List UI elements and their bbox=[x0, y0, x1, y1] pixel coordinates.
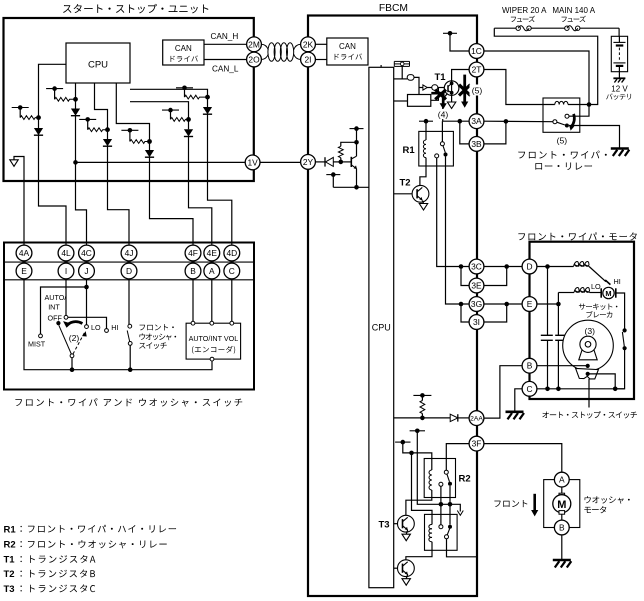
wire relay moving contact to ground bbox=[569, 126, 620, 149]
label front wiper low relay bbox=[518, 151, 606, 170]
resistor pull-up cell for 4E bbox=[162, 108, 191, 122]
relay coil (wiper low relay) bbox=[555, 101, 589, 104]
svg-text:B: B bbox=[559, 523, 565, 533]
label start-stop unit title bbox=[63, 4, 208, 14]
wire to gate2 bbox=[419, 87, 432, 89]
wire gate2 to T1 base bbox=[438, 87, 445, 89]
wire I column to AUTO/INT contact bbox=[65, 279, 67, 315]
wire R1 coil to T2 collector bbox=[420, 166, 426, 186]
wire R2 contacts down bbox=[441, 486, 450, 525]
wire follower stem to label bbox=[588, 379, 590, 408]
wire relay NO contact to junction bbox=[569, 105, 589, 117]
svg-text:(3): (3) bbox=[585, 326, 596, 336]
svg-text:C: C bbox=[229, 266, 235, 276]
power stub (2Y circuit) bbox=[350, 126, 364, 144]
ground (T1 emitter) bbox=[447, 95, 455, 108]
wire CPU pin3 down (4F line) bbox=[116, 83, 149, 142]
transistor T1 bbox=[444, 81, 459, 96]
power stub A (relay contact feed) bbox=[410, 429, 425, 434]
svg-text:2O: 2O bbox=[248, 55, 260, 65]
svg-text:1C: 1C bbox=[471, 46, 482, 56]
transistor T2 bbox=[394, 185, 429, 202]
svg-text:OFF: OFF bbox=[48, 313, 63, 322]
connector terminal I (switch) bbox=[58, 263, 74, 279]
svg-text:2AA: 2AA bbox=[470, 416, 483, 423]
label front washer switch bbox=[139, 324, 176, 349]
washer motor housing bbox=[544, 480, 580, 528]
label MIST bbox=[28, 339, 46, 348]
svg-text:AUTO/INT VOL: AUTO/INT VOL bbox=[189, 334, 239, 343]
connector terminal 2I bbox=[301, 52, 316, 67]
svg-text:B: B bbox=[527, 361, 533, 371]
label (2) bbox=[69, 333, 80, 343]
label LO bbox=[591, 282, 601, 291]
wire 3F to washer motor A bbox=[484, 444, 562, 473]
wire 4C line through 1V bus to connector bbox=[73, 116, 86, 246]
wire CPU right pin (4D line) bbox=[130, 89, 208, 97]
ground (wiper low relay) bbox=[611, 149, 630, 157]
circuit breaker (LO) bbox=[574, 288, 601, 293]
connector terminal 3A bbox=[469, 114, 484, 129]
wire coil supply to relay2 coil bbox=[412, 453, 433, 525]
svg-text:3I: 3I bbox=[473, 317, 480, 327]
wire CPU to 2AA diode bbox=[394, 417, 451, 419]
connector terminal 2Y bbox=[301, 155, 316, 170]
power stub (1C feed) bbox=[443, 31, 457, 36]
svg-text:D: D bbox=[126, 266, 132, 276]
label (5) relay bbox=[557, 135, 568, 145]
svg-text:A: A bbox=[559, 475, 565, 485]
capacitor 2 bbox=[555, 335, 567, 340]
label T1 bbox=[435, 72, 447, 83]
diode on 4E line bbox=[184, 119, 193, 136]
connector terminal B (switch) bbox=[185, 263, 201, 279]
svg-text:R2: R2 bbox=[459, 474, 471, 485]
wire stub B to R2 coil bbox=[403, 442, 432, 470]
power stub B (relay coil feed) bbox=[395, 440, 410, 445]
label front wiper motor bbox=[518, 232, 636, 240]
wire R2 coil to T3 collector bbox=[406, 498, 432, 516]
washer motor M bbox=[553, 487, 571, 520]
connector terminal 2AA bbox=[469, 411, 484, 426]
CAN driver IC (FBCM) bbox=[327, 38, 368, 65]
label (5) bbox=[470, 85, 485, 96]
svg-text:(5): (5) bbox=[557, 135, 568, 145]
wire park switch to C line bbox=[615, 348, 624, 389]
wire B to cam contact bbox=[537, 364, 590, 368]
relay R1 box bbox=[419, 131, 454, 166]
wire 1C to relay junction bbox=[484, 51, 591, 107]
power stub (2AA pull-up) bbox=[413, 393, 431, 400]
wire 1V to 2Y bbox=[260, 161, 301, 163]
transistor T3 bbox=[394, 515, 415, 532]
svg-text:4D: 4D bbox=[226, 248, 237, 258]
svg-text:CPU: CPU bbox=[372, 323, 391, 333]
capacitor 2 line bbox=[557, 304, 559, 389]
arrow to washer signal bbox=[457, 504, 463, 515]
wire 4J line to connector bbox=[108, 147, 130, 246]
wire 2T to relay coil bbox=[484, 70, 555, 105]
connector terminal D (switch) bbox=[121, 263, 137, 279]
resonator (CPU clock) bbox=[394, 61, 409, 66]
wire 3G to E bbox=[484, 302, 522, 307]
svg-text:T1: T1 bbox=[4, 555, 16, 566]
contact MIST bbox=[39, 334, 43, 338]
svg-text:4C: 4C bbox=[81, 248, 92, 258]
wire resonator to buffer input bbox=[401, 66, 403, 79]
wire CPU pin to driver block bbox=[394, 100, 408, 102]
connector terminal C (motor) bbox=[522, 381, 537, 396]
svg-text:T2: T2 bbox=[400, 178, 411, 189]
wire 4E line to connector bbox=[189, 137, 212, 246]
svg-text:B: B bbox=[190, 266, 196, 276]
wire M to auto-stop contact bbox=[616, 293, 625, 330]
svg-text:2T: 2T bbox=[472, 65, 482, 75]
svg-text:MIST: MIST bbox=[28, 339, 46, 348]
legend R2 bbox=[4, 540, 167, 551]
wire E to LO breaker bbox=[537, 293, 574, 307]
connector terminal B (washer) bbox=[554, 520, 569, 535]
svg-text:INT: INT bbox=[48, 303, 60, 312]
wire WIPER fuse output bbox=[494, 28, 597, 104]
ground (battery) bbox=[613, 78, 625, 82]
svg-text:4J: 4J bbox=[125, 248, 134, 258]
svg-text:4E: 4E bbox=[207, 248, 218, 258]
fuse MAIN 140A bbox=[565, 26, 580, 31]
transistor (2Y input, bare NPN) bbox=[341, 142, 359, 189]
relay R2 box bbox=[424, 459, 455, 498]
svg-text:4F: 4F bbox=[188, 248, 198, 258]
svg-text:T1: T1 bbox=[435, 72, 447, 83]
svg-text:3C: 3C bbox=[471, 262, 482, 272]
connector terminal 4L bbox=[58, 245, 74, 261]
CPU (FBCM, tall box) bbox=[369, 67, 394, 587]
wire AUTO-INT pad to HI pad bbox=[68, 317, 107, 328]
connector terminal C (switch) bbox=[224, 263, 240, 279]
label washer motor bbox=[584, 496, 629, 513]
connector terminal J (switch) bbox=[79, 263, 95, 279]
resistor pull-up cell for 4F bbox=[121, 128, 152, 144]
relay R1 contacts bbox=[435, 121, 448, 158]
label WIPER 20 A fuse bbox=[502, 6, 547, 22]
connector terminal E (motor) bbox=[522, 297, 537, 312]
wire CPU pin1 down (4C line) bbox=[75, 83, 77, 99]
resistor pull-up cell for 4C bbox=[46, 86, 78, 101]
ground (motor C) bbox=[506, 412, 525, 420]
svg-text:E: E bbox=[527, 299, 533, 309]
svg-text:CAN_L: CAN_L bbox=[212, 64, 239, 73]
switch arm to OFF bbox=[59, 325, 72, 354]
relay 2 contacts bbox=[439, 525, 452, 539]
svg-text:3B: 3B bbox=[471, 139, 482, 149]
connector terminal 1C bbox=[469, 44, 484, 59]
label front wiper and washer switch bbox=[15, 398, 242, 406]
label 12V battery bbox=[606, 84, 631, 100]
contact AUTO/INT bbox=[64, 315, 68, 319]
svg-text:2K: 2K bbox=[303, 39, 314, 49]
wire CPU pin2 down (4J line) bbox=[95, 83, 108, 130]
connector terminal 3C bbox=[469, 259, 484, 274]
svg-text:CAN: CAN bbox=[175, 44, 192, 53]
wire CAN driver to 2O bbox=[204, 59, 247, 61]
wire C line bbox=[537, 387, 625, 392]
connector terminal 3E bbox=[469, 278, 484, 293]
label AUTO/INT bbox=[45, 293, 67, 312]
battery 12V bbox=[611, 36, 627, 78]
wire 4L line to connector bbox=[39, 136, 67, 246]
buffer gate 2 bbox=[432, 85, 438, 90]
wire CPU pin to buffer bbox=[394, 78, 408, 80]
svg-text:2Y: 2Y bbox=[303, 157, 314, 167]
svg-text:3G: 3G bbox=[471, 299, 482, 309]
front wiper motor box bbox=[530, 242, 635, 399]
svg-text:(4): (4) bbox=[438, 110, 449, 120]
legend R1 bbox=[4, 524, 177, 535]
svg-text:WIPER 20 A: WIPER 20 A bbox=[502, 6, 547, 15]
svg-text:D: D bbox=[526, 262, 532, 272]
resistor pull-up cell for 4J bbox=[79, 117, 110, 132]
connector terminal 3I bbox=[469, 315, 484, 330]
wire 4F line to connector bbox=[150, 158, 194, 246]
svg-text:J: J bbox=[84, 266, 88, 276]
wire D column to washer switch bbox=[128, 279, 130, 324]
resistor pull-up cell for 4D bbox=[176, 86, 210, 100]
label T2 bbox=[400, 178, 411, 189]
wire 2I to CAN driver bbox=[316, 59, 327, 61]
ground (T2 emitter) bbox=[419, 201, 427, 211]
svg-text:(5): (5) bbox=[472, 86, 483, 96]
wire CAN driver to CPU top bbox=[380, 65, 382, 67]
label (3) bbox=[585, 326, 596, 336]
connector terminal 2M bbox=[247, 37, 262, 52]
svg-text:2I: 2I bbox=[305, 55, 312, 65]
transistor T4 (unlabelled) bbox=[394, 560, 415, 577]
connector terminal 4A bbox=[16, 245, 32, 261]
label MAIN 140 A fuse bbox=[552, 6, 595, 22]
label LO bbox=[91, 323, 101, 332]
contact LO bbox=[85, 325, 89, 329]
svg-text:CPU: CPU bbox=[88, 60, 108, 71]
connector terminal 1V bbox=[245, 155, 260, 170]
svg-text:12 V: 12 V bbox=[611, 84, 628, 93]
ground (T3 emitter) bbox=[402, 530, 410, 541]
front direction arrow bbox=[531, 494, 538, 517]
wire breaker to HI brush bbox=[589, 267, 606, 282]
connector terminal B (motor) bbox=[522, 358, 537, 373]
internal signal ground symbol (start-stop unit) bbox=[10, 157, 24, 246]
driver block (T1 predriver) bbox=[408, 95, 431, 107]
svg-text:3A: 3A bbox=[471, 116, 482, 126]
connector terminal A (switch) bbox=[204, 263, 220, 279]
svg-text:A: A bbox=[209, 266, 215, 276]
label T3 bbox=[379, 520, 390, 531]
wire driver block to T1 base bbox=[431, 88, 439, 101]
svg-text:HI: HI bbox=[614, 277, 621, 286]
svg-text:T2: T2 bbox=[4, 569, 15, 580]
svg-text:3E: 3E bbox=[471, 281, 482, 291]
relay R1 coil bbox=[423, 140, 426, 166]
connector terminal 4J bbox=[121, 245, 137, 261]
wire 3B branch bbox=[460, 121, 469, 144]
svg-text:4L: 4L bbox=[61, 248, 71, 258]
wire T1 to 3A line bbox=[443, 94, 448, 122]
svg-text:R1: R1 bbox=[403, 145, 416, 156]
wire 3E joins bbox=[484, 267, 507, 286]
connector terminal A (washer) bbox=[554, 472, 569, 487]
node CAN_H bbox=[211, 32, 239, 41]
auto-stop park switch contact bbox=[622, 328, 626, 350]
contact HI bbox=[105, 329, 109, 333]
wire B A C columns to encoder bbox=[193, 279, 232, 321]
svg-text:T3: T3 bbox=[4, 584, 15, 595]
label HI bbox=[614, 277, 621, 286]
resistor (2AA pull-up) bbox=[420, 401, 425, 421]
connector terminal D (motor) bbox=[522, 259, 537, 274]
resistor (2Y pull-up) bbox=[338, 142, 356, 164]
svg-text:E: E bbox=[21, 266, 27, 276]
diode on 4C line bbox=[71, 99, 80, 115]
label R1 bbox=[403, 145, 416, 156]
switch arm dashed to LO bbox=[73, 331, 87, 354]
svg-text:FBCM: FBCM bbox=[379, 3, 408, 14]
diode on 4L line bbox=[34, 118, 43, 136]
connector terminal 2T bbox=[469, 62, 484, 77]
svg-text:R2: R2 bbox=[4, 540, 16, 551]
svg-text:AUTO/: AUTO/ bbox=[45, 293, 67, 302]
resistor pull-up cell for 4L bbox=[12, 105, 41, 120]
diode (2AA line, cathode right) bbox=[450, 414, 469, 421]
svg-text:LO: LO bbox=[91, 323, 101, 332]
svg-text:(2): (2) bbox=[69, 333, 80, 343]
label (4) bbox=[435, 109, 452, 120]
wire stub A to contact rail bbox=[417, 431, 458, 507]
legend T3 bbox=[4, 584, 96, 595]
power stub (2Y emitter rail) bbox=[326, 172, 340, 187]
wire 3I joins bbox=[484, 304, 507, 322]
svg-text:C: C bbox=[526, 384, 532, 394]
connector terminal 4C bbox=[79, 245, 95, 261]
wire D to HI breaker bbox=[537, 264, 574, 269]
current flow arrow (4) with X bbox=[431, 90, 447, 110]
connector terminal 3G bbox=[469, 297, 484, 312]
AUTO/INT VOL encoder box bbox=[186, 321, 241, 361]
svg-text:CAN: CAN bbox=[339, 42, 356, 51]
svg-text:I: I bbox=[65, 266, 67, 276]
wire J column to LO contact bbox=[84, 279, 89, 325]
svg-text:4A: 4A bbox=[19, 248, 30, 258]
fuse WIPER 20A bbox=[516, 26, 531, 31]
wire 4D line to connector bbox=[208, 115, 232, 246]
capacitor 1 bbox=[541, 335, 553, 340]
connector terminal 3B bbox=[469, 137, 484, 152]
diode (2Y line, cathode left) bbox=[325, 157, 341, 166]
buffer gate triangle bbox=[423, 85, 427, 90]
connector terminal 2K bbox=[301, 37, 316, 52]
front wiper and washer switch box bbox=[4, 243, 254, 390]
auto-stop cam plate bbox=[563, 320, 614, 371]
wire R1 NC to 3C/3E bbox=[437, 158, 470, 286]
wire C to ground bbox=[515, 389, 522, 412]
connector terminal E (switch) bbox=[16, 263, 32, 279]
wire 3C to D bbox=[484, 264, 522, 269]
legend T2 bbox=[4, 569, 96, 580]
wire 3A to relay R1 branch bbox=[443, 119, 470, 124]
relay box 2 (washer) bbox=[425, 514, 458, 550]
label auto stop switch bbox=[542, 411, 637, 418]
cam follower contact plate bbox=[576, 368, 599, 379]
FBCM box bbox=[308, 16, 477, 597]
svg-text:MAIN 140 A: MAIN 140 A bbox=[552, 6, 595, 15]
CPU U100 (start-stop unit) bbox=[66, 43, 130, 83]
connector terminal 2O bbox=[247, 52, 262, 67]
power stub (R1 coil feed) bbox=[419, 119, 433, 140]
relay actuate arrow bbox=[569, 114, 574, 131]
wire relay2 output to border bbox=[447, 539, 477, 557]
connector terminal 4F bbox=[185, 245, 201, 261]
current flow arrow (5) with X bbox=[459, 75, 470, 108]
wire 3B joins 3A bbox=[484, 121, 506, 143]
buffer gate 1 bbox=[407, 75, 414, 81]
svg-text:T3: T3 bbox=[379, 520, 390, 531]
diode on 4J line bbox=[103, 130, 112, 147]
svg-text:HI: HI bbox=[111, 323, 118, 332]
diode on 4F line (clamps to 1V bus) bbox=[145, 142, 154, 158]
start-stop unit box スタート・ストップ・ユニット bbox=[4, 18, 254, 181]
switch arm pivot bbox=[70, 354, 74, 370]
wire CPU right pin (4E line) bbox=[130, 102, 189, 120]
wire 2Y input bbox=[315, 161, 325, 163]
rotate direction bold arc (2) bbox=[63, 320, 82, 328]
cam centre boss bbox=[579, 336, 597, 360]
label R2 bbox=[459, 474, 471, 485]
wire battery feed through fuses bbox=[494, 28, 619, 36]
relay contacts (wiper low relay) bbox=[553, 114, 569, 127]
connector terminal 3F bbox=[469, 436, 484, 451]
wire to MIST contact bbox=[41, 287, 87, 334]
CAN driver IC (start-stop unit) bbox=[163, 40, 204, 65]
contact OFF (wiper arm position) bbox=[56, 321, 60, 325]
svg-text:M: M bbox=[557, 499, 566, 511]
label OFF bbox=[48, 313, 63, 322]
ground (T4 emitter) bbox=[402, 574, 410, 585]
wire follower to C line bbox=[586, 372, 618, 391]
wire 2T to T1 collector bbox=[452, 70, 470, 81]
diode on 4D line bbox=[203, 97, 212, 114]
wire 3F to R2 contact bbox=[446, 444, 469, 471]
wire stub to 1C bbox=[450, 33, 469, 51]
twisted pair CAN bus between 2M/2O and 2K/2I bbox=[261, 43, 300, 61]
svg-text:3F: 3F bbox=[472, 439, 482, 449]
wire buffer1 output bbox=[414, 77, 419, 94]
label HI bbox=[111, 323, 118, 332]
relay R2 coil bbox=[429, 470, 432, 498]
capacitor 1 line bbox=[547, 267, 549, 389]
wire E column to ground bus bbox=[24, 279, 212, 372]
front wiper low relay box bbox=[543, 98, 580, 132]
wire washer B to ground bbox=[561, 535, 563, 560]
circuit breaker (HI) bbox=[574, 262, 590, 267]
ground (washer motor) bbox=[553, 560, 572, 568]
relay R2 contacts bbox=[439, 470, 452, 486]
wire 3A to relay common bbox=[484, 119, 553, 124]
wire CPU left pin to cell (4L line) bbox=[39, 64, 67, 116]
wire emitter rail to CPU bbox=[333, 186, 369, 188]
svg-text:LO: LO bbox=[591, 282, 601, 291]
wiper motor M bbox=[601, 280, 616, 299]
wire B to 2AA bbox=[484, 366, 522, 418]
svg-text:CAN_H: CAN_H bbox=[211, 32, 239, 41]
legend T1 bbox=[4, 555, 96, 566]
